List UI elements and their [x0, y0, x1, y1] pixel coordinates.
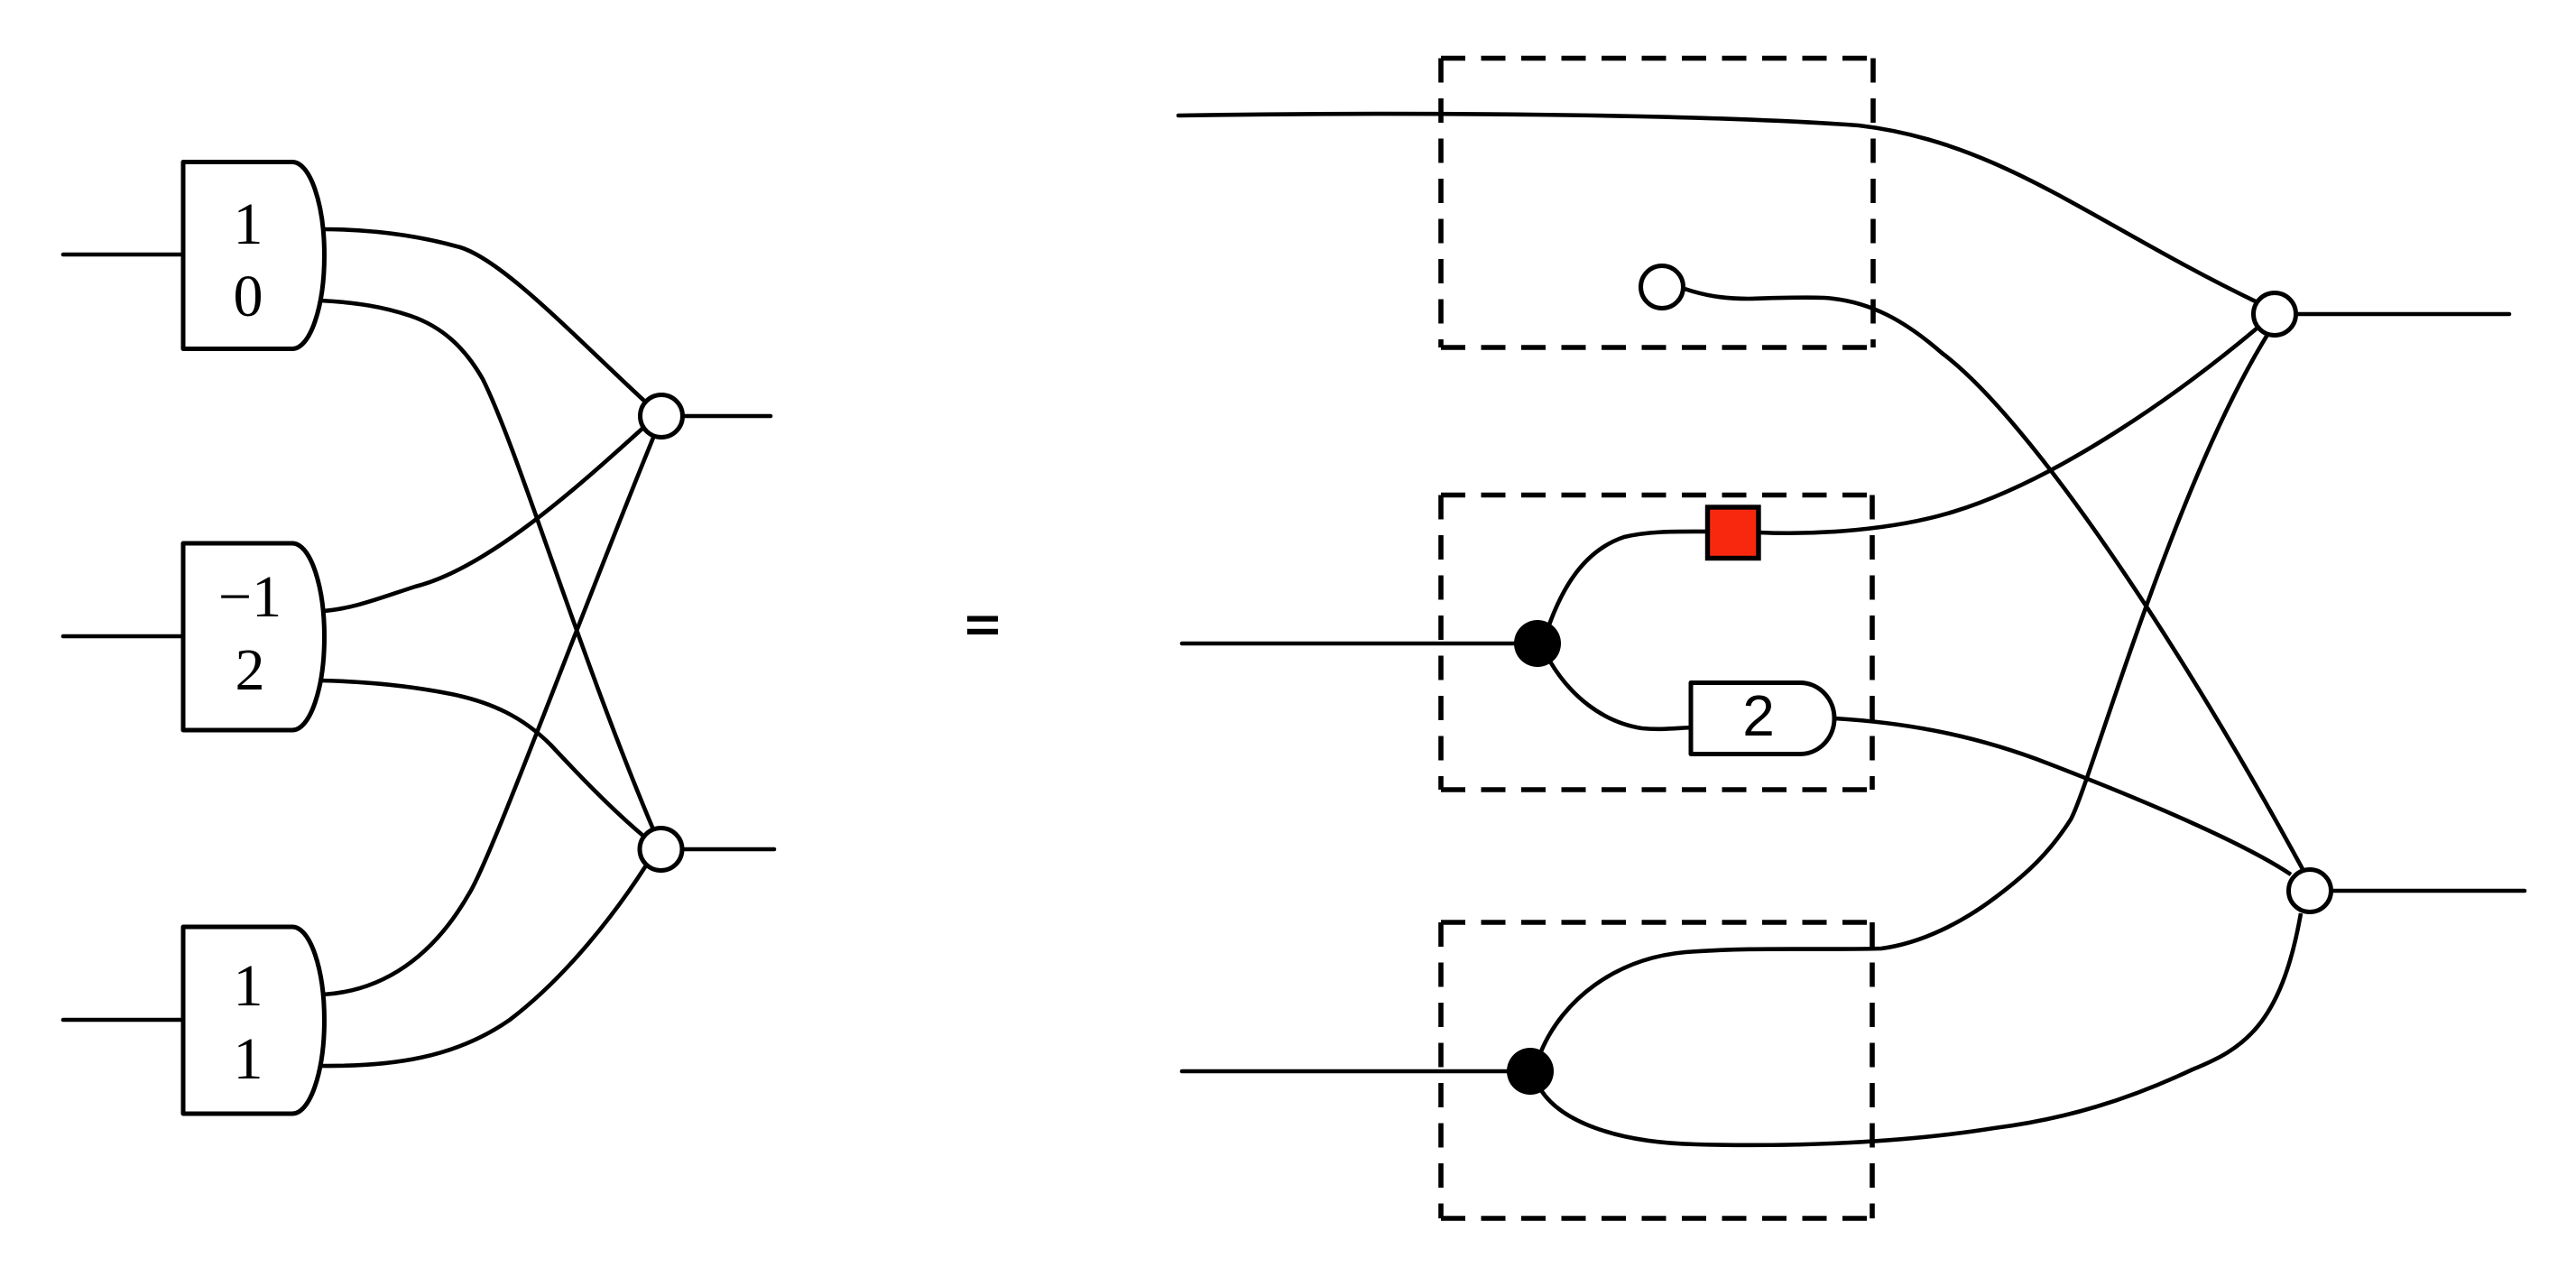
copy dot C1 (filled circle): [1514, 620, 1561, 667]
add node B (white circle): [2289, 870, 2331, 912]
svg-text:2: 2: [1742, 683, 1775, 748]
svg-text:2: 2: [235, 637, 265, 703]
wire B3 bottom output to node N2: [319, 865, 646, 1066]
wire C1 lower branch to scalar 2 box: [1550, 662, 1693, 729]
add node A (white circle): [2254, 293, 2296, 336]
wire C2 lower branch to node B: [1541, 913, 2301, 1145]
antipode square (red): [1708, 507, 1759, 559]
svg-text:−1: −1: [218, 564, 282, 630]
dashed box D2 (middle): [1441, 495, 1872, 791]
add node N2 (white circle): [640, 828, 682, 871]
wire from zero node to node B: [1685, 289, 2303, 869]
svg-text:1: 1: [234, 1026, 263, 1092]
wire B1 bottom output to node N2: [320, 301, 653, 829]
wire B2 top output to node N1: [322, 427, 644, 611]
scalar box 2: [1691, 683, 1834, 754]
middle input wire to copy dot C1: [1182, 642, 1525, 646]
input wire to box B1: [63, 253, 185, 257]
equals sign: [967, 616, 998, 635]
input wire to box B2: [63, 634, 185, 639]
svg-text:0: 0: [234, 264, 263, 329]
wire B2 bottom output to node N2: [320, 680, 644, 837]
input wire to box B3: [63, 1018, 185, 1023]
matrix box B2 [-1 2]: [183, 543, 325, 730]
wire from antipode square to node A: [1759, 329, 2257, 533]
dashed box D3 (bottom): [1441, 922, 1872, 1218]
dashed box D1 (top): [1441, 59, 1873, 348]
zero node (small white circle) in D1: [1641, 266, 1684, 309]
wire C2 upper branch to node A: [1541, 335, 2267, 1051]
wire top input across box D1 to node A: [1178, 114, 2259, 303]
copy dot C2 (filled circle): [1507, 1048, 1554, 1095]
svg-text:1: 1: [234, 953, 263, 1019]
output wire from node B: [2331, 889, 2525, 893]
wire C1 upper branch to antipode square: [1548, 532, 1710, 627]
svg-text:1: 1: [234, 191, 263, 257]
output wire from node N1: [683, 414, 771, 419]
matrix box B1 [1 0]: [183, 162, 324, 349]
matrix box B3 [1 1]: [183, 927, 324, 1114]
bottom input wire to copy dot C2: [1182, 1069, 1518, 1074]
output wire from node A: [2296, 312, 2509, 317]
wire from scalar 2 box to node B: [1834, 718, 2291, 875]
wire B1 top output to node N1: [322, 229, 646, 403]
add node N1 (white circle): [641, 395, 683, 438]
output wire from node N2: [683, 847, 774, 852]
wire B3 top output to node N1: [323, 438, 653, 995]
